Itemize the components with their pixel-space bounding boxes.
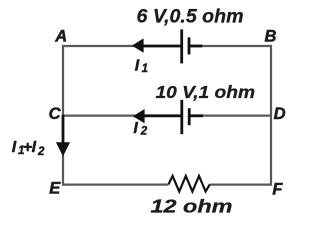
current arrow I1+I2	[56, 142, 70, 156]
wire C to arrow thick	[62, 115, 65, 146]
current arrow I1	[132, 38, 144, 52]
battery B1 thick lead left	[142, 45, 181, 48]
battery B1 short plate	[188, 37, 191, 54]
wire A-B top horizontal	[63, 45, 270, 47]
svg-text:2: 2	[37, 146, 45, 158]
battery B2 short plate	[188, 108, 191, 125]
svg-text:A: A	[54, 28, 67, 46]
svg-text:I: I	[12, 139, 17, 156]
resistor R1 12 ohm zigzag	[169, 176, 210, 192]
wire E-F bottom horizontal	[63, 184, 270, 186]
battery B2 long plate	[180, 100, 183, 134]
battery B2 thick lead left	[143, 114, 181, 117]
svg-text:I: I	[135, 58, 140, 75]
svg-text:F: F	[272, 180, 283, 198]
wire right rail B-D-F	[270, 45, 272, 186]
svg-text:2: 2	[140, 126, 148, 138]
wire left rail A-C-E	[62, 45, 64, 186]
battery B1 long plate	[180, 29, 183, 63]
svg-text:12 ohm: 12 ohm	[151, 195, 233, 216]
svg-text:C: C	[49, 105, 62, 123]
svg-text:D: D	[274, 105, 286, 123]
svg-text:6 V,0.5 ohm: 6 V,0.5 ohm	[137, 7, 244, 28]
battery B1 thick lead right	[190, 45, 202, 48]
svg-text:E: E	[49, 179, 61, 197]
battery B2 thick lead right	[190, 114, 203, 117]
wire C-D middle horizontal	[63, 114, 270, 116]
svg-text:I: I	[32, 139, 37, 156]
svg-text:10 V,1 ohm: 10 V,1 ohm	[156, 82, 256, 102]
svg-text:B: B	[265, 28, 277, 46]
svg-text:I: I	[133, 120, 138, 137]
current arrow I2	[133, 109, 145, 123]
label I1+I2	[12, 139, 45, 158]
svg-text:1: 1	[142, 63, 148, 75]
